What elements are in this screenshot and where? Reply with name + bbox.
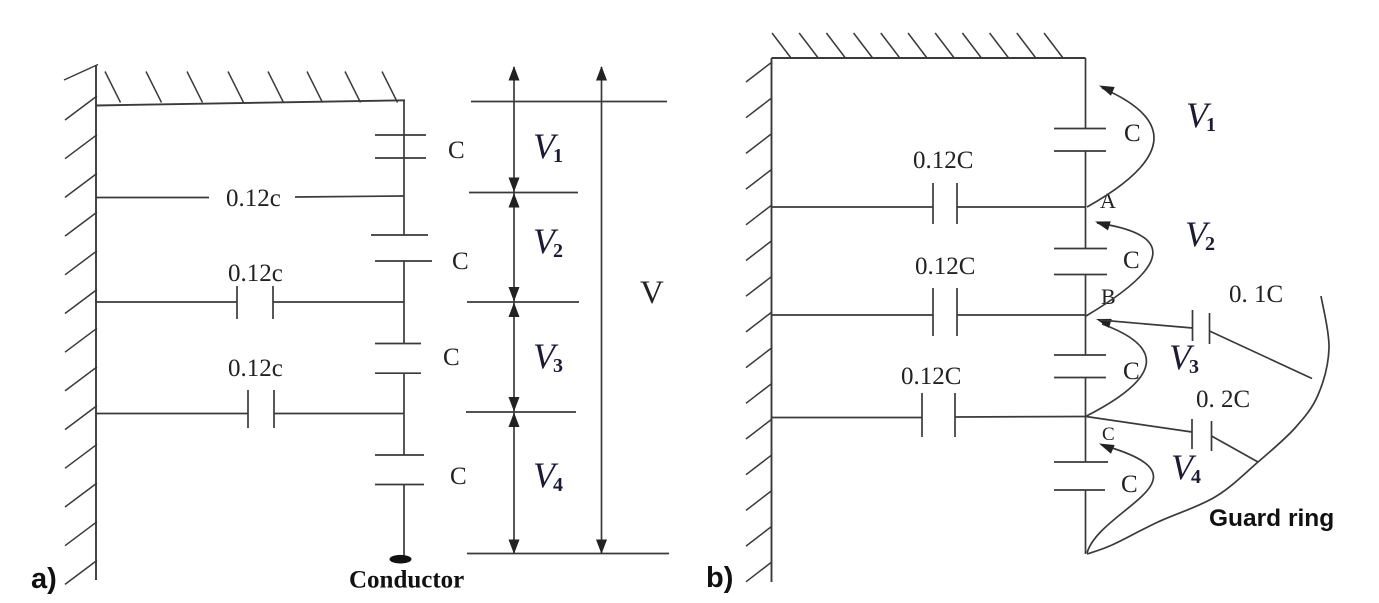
svg-text:4: 4 (553, 474, 563, 496)
svg-text:a): a) (31, 563, 57, 595)
svg-text:2: 2 (553, 240, 563, 262)
svg-text:V: V (640, 275, 664, 311)
svg-text:C: C (443, 344, 460, 371)
svg-text:C: C (1123, 247, 1140, 274)
svg-text:A: A (1100, 188, 1116, 213)
svg-text:C: C (452, 248, 469, 275)
svg-text:3: 3 (1189, 356, 1199, 378)
svg-text:0.12C: 0.12C (913, 147, 973, 174)
svg-text:1: 1 (1206, 114, 1216, 136)
svg-text:0.12c: 0.12c (228, 355, 283, 382)
svg-text:0.12C: 0.12C (901, 363, 961, 390)
svg-text:b): b) (706, 562, 733, 594)
svg-text:C: C (1102, 424, 1115, 445)
svg-text:0.12C: 0.12C (915, 253, 975, 280)
svg-text:2: 2 (1205, 233, 1215, 255)
svg-text:0.12c: 0.12c (228, 260, 283, 287)
svg-text:4: 4 (1191, 466, 1201, 488)
svg-text:0. 1C: 0. 1C (1229, 281, 1283, 308)
svg-text:C: C (448, 137, 465, 164)
svg-text:Conductor: Conductor (349, 567, 464, 594)
svg-text:C: C (1124, 120, 1141, 147)
svg-text:1: 1 (553, 145, 563, 167)
svg-text:0. 2C: 0. 2C (1196, 386, 1250, 413)
svg-text:C: C (1121, 471, 1138, 498)
svg-text:C: C (450, 463, 467, 490)
svg-text:3: 3 (553, 355, 563, 377)
svg-text:0.12c: 0.12c (226, 185, 281, 212)
svg-text:Guard ring: Guard ring (1209, 505, 1334, 532)
